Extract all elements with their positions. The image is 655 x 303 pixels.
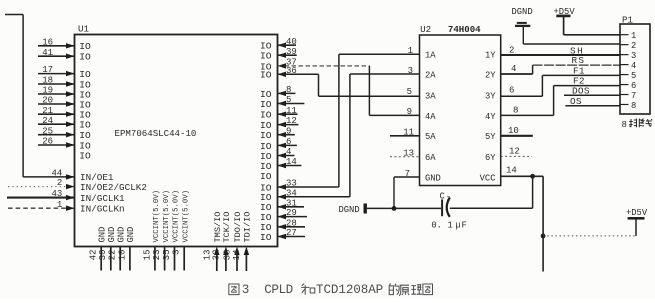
svg-text:3: 3 — [242, 283, 250, 297]
svg-text:2A: 2A — [425, 70, 436, 80]
svg-text:9: 9 — [407, 107, 412, 117]
svg-text:2: 2 — [57, 178, 62, 188]
svg-text:P1: P1 — [622, 15, 634, 26]
svg-text:CPLD: CPLD — [264, 283, 292, 297]
svg-text:DGND: DGND — [512, 7, 533, 17]
svg-text:GND: GND — [126, 227, 136, 243]
svg-text:TCK/IO: TCK/IO — [222, 212, 232, 243]
svg-text:9: 9 — [286, 126, 291, 136]
svg-text:14: 14 — [232, 250, 242, 261]
svg-text:3: 3 — [408, 66, 413, 76]
svg-text:17: 17 — [42, 65, 53, 75]
svg-text:4: 4 — [631, 61, 636, 71]
svg-text:14: 14 — [286, 157, 297, 167]
svg-text:TDI/IO: TDI/IO — [243, 212, 253, 243]
svg-text:TCD1208AP: TCD1208AP — [316, 283, 383, 297]
svg-text:IO: IO — [79, 69, 91, 80]
svg-text:1: 1 — [408, 46, 413, 56]
svg-text:6Y: 6Y — [485, 153, 496, 163]
svg-text:IO: IO — [260, 232, 272, 243]
svg-text:F: F — [462, 220, 467, 230]
svg-text:GND: GND — [425, 173, 441, 183]
svg-text:7: 7 — [631, 91, 636, 101]
svg-text:6: 6 — [631, 81, 636, 91]
svg-text:3Y: 3Y — [485, 92, 496, 102]
svg-text:26: 26 — [42, 137, 53, 147]
svg-text:20: 20 — [42, 96, 53, 106]
svg-text:31: 31 — [286, 198, 297, 208]
svg-text:43: 43 — [51, 189, 62, 199]
svg-text:4: 4 — [511, 64, 516, 74]
svg-text:15: 15 — [142, 250, 152, 261]
svg-text:24: 24 — [42, 116, 53, 126]
svg-text:0.: 0. — [431, 220, 442, 230]
svg-text:IO: IO — [260, 51, 272, 62]
svg-text:1: 1 — [631, 31, 636, 41]
svg-text:VCCINT(5.0V): VCCINT(5.0V) — [163, 190, 171, 243]
svg-text:IO: IO — [79, 41, 91, 52]
svg-text:VCC: VCC — [480, 173, 496, 183]
svg-text:IN/GCLK1: IN/GCLK1 — [80, 193, 125, 204]
svg-text:μ: μ — [456, 219, 461, 229]
svg-text:RS: RS — [572, 55, 586, 66]
svg-text:11: 11 — [403, 128, 414, 138]
svg-text:35: 35 — [162, 250, 172, 261]
svg-text:DOS: DOS — [572, 85, 590, 96]
svg-text:1: 1 — [448, 220, 453, 230]
svg-text:2: 2 — [509, 46, 514, 56]
svg-text:42: 42 — [89, 250, 99, 261]
svg-text:13: 13 — [403, 148, 414, 158]
svg-text:18: 18 — [42, 76, 53, 86]
svg-text:6: 6 — [509, 85, 514, 95]
svg-text:8: 8 — [513, 105, 518, 115]
svg-text:2: 2 — [631, 41, 636, 51]
svg-text:5: 5 — [631, 71, 636, 81]
svg-text:U1: U1 — [78, 24, 90, 35]
svg-text:VCCINT(5.0V): VCCINT(5.0V) — [173, 190, 181, 243]
svg-text:41: 41 — [42, 48, 53, 58]
svg-text:GND: GND — [116, 227, 126, 243]
svg-text:IO: IO — [260, 130, 272, 141]
svg-text:32: 32 — [212, 250, 222, 261]
svg-text:IO: IO — [79, 52, 91, 63]
svg-text:+D5V: +D5V — [626, 208, 648, 218]
svg-text:16: 16 — [42, 37, 53, 47]
svg-text:2Y: 2Y — [485, 70, 496, 80]
svg-text:14: 14 — [506, 166, 517, 176]
svg-text:5: 5 — [407, 87, 412, 97]
svg-text:10: 10 — [117, 250, 127, 261]
svg-text:IN/GCLKn: IN/GCLKn — [80, 204, 125, 215]
svg-text:1: 1 — [57, 200, 62, 210]
svg-text:3: 3 — [172, 250, 182, 255]
svg-text:6: 6 — [286, 137, 291, 147]
svg-text:28: 28 — [286, 218, 297, 228]
svg-text:6A: 6A — [425, 153, 436, 163]
svg-text:IO: IO — [260, 110, 272, 121]
svg-text:EPM7064SLC44-10: EPM7064SLC44-10 — [115, 128, 197, 139]
svg-text:IO: IO — [260, 171, 272, 182]
svg-text:11: 11 — [286, 106, 297, 116]
svg-text:4: 4 — [286, 147, 291, 157]
svg-text:10: 10 — [508, 126, 519, 136]
svg-text:22: 22 — [108, 250, 118, 261]
svg-text:3: 3 — [631, 51, 636, 61]
svg-text:VCCINT(5.0V): VCCINT(5.0V) — [182, 190, 190, 243]
svg-text:C: C — [440, 192, 445, 202]
svg-text:5Y: 5Y — [485, 132, 496, 142]
svg-text:39: 39 — [286, 47, 297, 57]
svg-text:4Y: 4Y — [485, 112, 496, 122]
svg-text:IO: IO — [79, 151, 91, 162]
svg-text:1Y: 1Y — [485, 51, 496, 61]
svg-text:IO: IO — [260, 70, 272, 81]
svg-text:29: 29 — [286, 208, 297, 218]
svg-text:1A: 1A — [425, 51, 436, 61]
svg-text:8: 8 — [631, 101, 636, 111]
svg-text:VCCINT(5.0V): VCCINT(5.0V) — [153, 190, 161, 243]
svg-text:8: 8 — [622, 120, 627, 130]
svg-text:GND: GND — [97, 227, 107, 243]
svg-text:IO: IO — [260, 99, 272, 110]
svg-text:40: 40 — [286, 37, 297, 47]
svg-text:25: 25 — [42, 126, 53, 136]
svg-text:23: 23 — [152, 250, 162, 261]
svg-text:19: 19 — [42, 86, 53, 96]
svg-text:IO: IO — [79, 120, 91, 131]
svg-text:8: 8 — [286, 85, 291, 95]
svg-text:OS: OS — [570, 96, 582, 107]
svg-text:74H004: 74H004 — [448, 24, 481, 35]
svg-text:DGND: DGND — [339, 205, 360, 215]
svg-text:12: 12 — [286, 116, 297, 126]
svg-text:12: 12 — [509, 147, 520, 157]
svg-text:3A: 3A — [425, 92, 436, 102]
svg-text:2: 2 — [447, 195, 451, 202]
svg-text:IN/OE2/GCLK2: IN/OE2/GCLK2 — [80, 182, 147, 193]
svg-text:5: 5 — [286, 95, 291, 105]
svg-text:27: 27 — [286, 228, 297, 238]
svg-text:21: 21 — [42, 106, 53, 116]
svg-text:4A: 4A — [425, 112, 436, 122]
svg-text:5A: 5A — [425, 132, 436, 142]
svg-text:U2: U2 — [420, 24, 431, 35]
svg-text:44: 44 — [51, 169, 62, 179]
